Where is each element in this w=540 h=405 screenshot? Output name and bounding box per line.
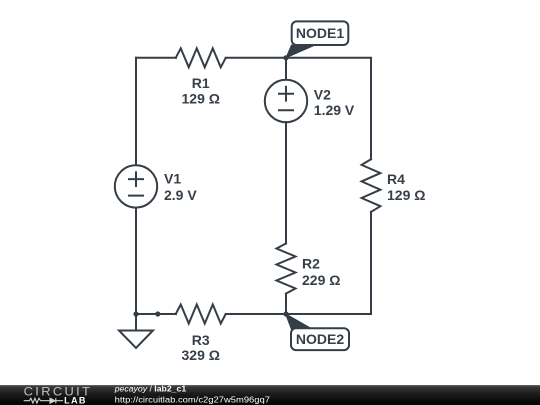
wire R4 to bottom-right corner to NODE2 bbox=[286, 212, 371, 314]
svg-text:R3: R3 bbox=[192, 332, 210, 348]
wire ground junction to R3 bbox=[136, 313, 176, 315]
resistor R3 bbox=[176, 305, 226, 324]
svg-text:LAB: LAB bbox=[64, 395, 87, 405]
wire top-left: left corner to R1 bbox=[136, 57, 176, 59]
node dot NODE2 junction bbox=[283, 311, 288, 316]
wire left vertical: top corner down to V1 bbox=[135, 58, 137, 166]
resistor R1 bbox=[176, 48, 226, 67]
footer logo resistor-diode squiggle bbox=[24, 398, 63, 403]
svg-text:329 Ω: 329 Ω bbox=[182, 347, 220, 363]
flag pointer NODE1 bbox=[286, 45, 315, 58]
flag pointer NODE2 bbox=[286, 314, 314, 330]
node dot NODE1 junction bbox=[283, 55, 288, 60]
wire NODE1 down to V2 bbox=[285, 58, 287, 80]
svg-text:http://circuitlab.com/c2g27w5m: http://circuitlab.com/c2g27w5m96gq7 bbox=[115, 395, 271, 405]
svg-text:V2: V2 bbox=[314, 87, 331, 103]
flag box NODE1 bbox=[292, 21, 349, 45]
wire R2 to NODE2 bbox=[285, 294, 287, 315]
wire R3 to node NODE2 bbox=[226, 313, 286, 315]
svg-text:NODE1: NODE1 bbox=[296, 25, 344, 41]
wire NODE1 to top-right corner and down to R4 bbox=[286, 58, 371, 160]
svg-text:R2: R2 bbox=[302, 256, 320, 272]
svg-text:1.29 V: 1.29 V bbox=[314, 102, 355, 118]
svg-text:NODE2: NODE2 bbox=[296, 331, 344, 347]
resistor R4 bbox=[362, 159, 381, 212]
node dot ground junction bbox=[133, 311, 138, 316]
svg-text:R4: R4 bbox=[387, 171, 405, 187]
svg-text:R1: R1 bbox=[192, 75, 210, 91]
flag box NODE2 bbox=[291, 328, 349, 350]
voltage source V1 bbox=[115, 165, 157, 207]
wire V2 to R2 bbox=[285, 122, 287, 243]
ground bbox=[119, 314, 153, 348]
footer bar bbox=[0, 385, 540, 405]
svg-text:229 Ω: 229 Ω bbox=[302, 272, 340, 288]
node dot ground-R3 junction bbox=[155, 311, 160, 316]
wire V1 to ground junction bbox=[135, 208, 137, 314]
svg-text:pecayoy / lab2_c1: pecayoy / lab2_c1 bbox=[114, 383, 187, 393]
wire R1 to node NODE1 bbox=[226, 57, 286, 59]
svg-text:129 Ω: 129 Ω bbox=[387, 187, 425, 203]
voltage source V2 bbox=[265, 80, 307, 122]
svg-text:129 Ω: 129 Ω bbox=[182, 90, 220, 106]
svg-text:V1: V1 bbox=[164, 171, 181, 187]
resistor R2 bbox=[277, 244, 296, 294]
svg-text:2.9 V: 2.9 V bbox=[164, 187, 197, 203]
